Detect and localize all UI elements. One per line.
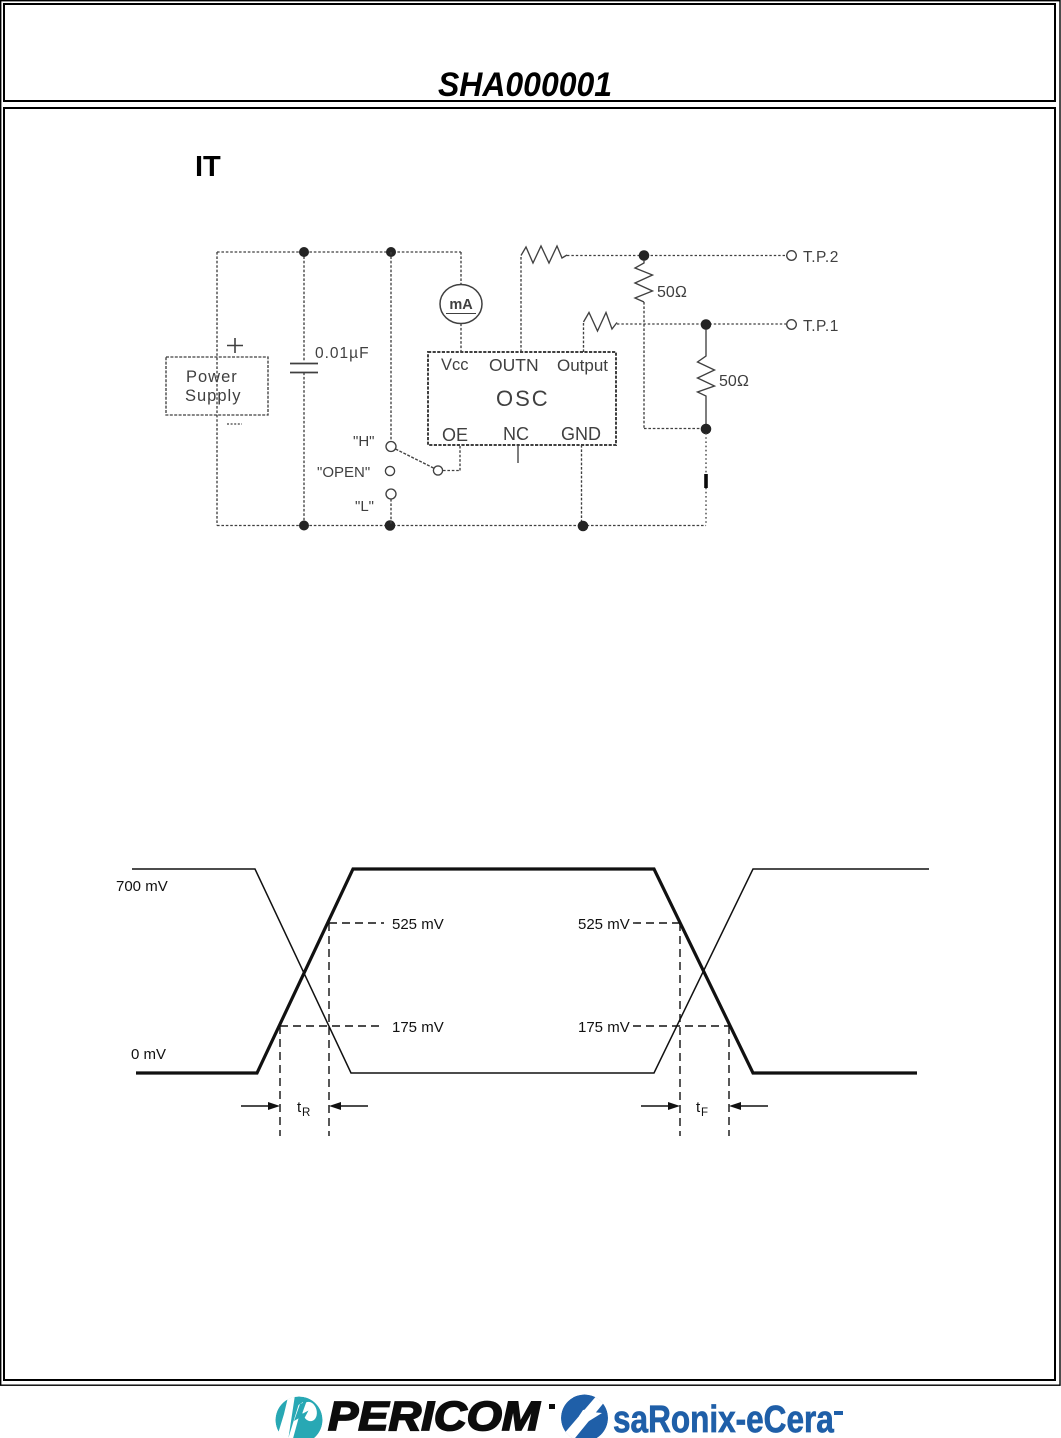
saronix icon <box>561 1394 608 1438</box>
svg-text:OSC: OSC <box>496 386 550 411</box>
pin GND wire <box>581 445 583 526</box>
dashed 175 left <box>280 1025 384 1027</box>
svg-text:mA: mA <box>449 297 473 313</box>
svg-text:IT: IT <box>195 151 221 183</box>
junction bottom-cap <box>299 521 309 531</box>
power supply PS1 <box>166 357 268 415</box>
svg-text:"L": "L" <box>355 498 374 515</box>
dashed vertical tf-end <box>728 1026 730 1136</box>
label 175mV left <box>392 1019 444 1036</box>
minus terminal label <box>227 423 242 425</box>
svg-text:525 mV: 525 mV <box>578 916 630 933</box>
wire tp2 <box>567 255 786 257</box>
arrow tf left <box>641 1102 680 1110</box>
svg-text:Vcc: Vcc <box>441 356 469 374</box>
mark scan-dash <box>704 474 708 488</box>
svg-text:175 mV: 175 mV <box>578 1019 630 1036</box>
pericom icon <box>272 1395 323 1438</box>
testpoint T.P.2 <box>787 249 839 266</box>
svg-text:T.P.2: T.P.2 <box>803 249 839 266</box>
svg-text:OE: OE <box>442 425 468 445</box>
testpoint T.P.1 <box>787 318 839 335</box>
waveform thin trace <box>132 869 929 1073</box>
arrow tf right <box>729 1102 768 1110</box>
TITLE <box>438 65 612 103</box>
svg-text:0 mV: 0 mV <box>131 1046 166 1063</box>
HEADING-IT <box>195 151 221 183</box>
label tR <box>297 1099 310 1119</box>
svg-text:50Ω: 50Ω <box>657 284 687 301</box>
wire left rail <box>216 252 218 526</box>
svg-text:saRonix-eCera: saRonix-eCera <box>613 1398 834 1438</box>
wire tp1 <box>617 323 786 325</box>
wire r2-to-node <box>644 428 701 430</box>
label OPEN <box>317 464 370 481</box>
svg-text:50Ω: 50Ω <box>719 373 749 390</box>
wire bottom rail <box>217 525 706 527</box>
dashed 525 right <box>633 922 680 924</box>
svg-text:Output: Output <box>557 356 608 375</box>
label 0mV <box>131 1046 166 1063</box>
arrow tr left <box>241 1102 280 1110</box>
dashed 525 left <box>329 922 384 924</box>
junction gnd-bottom <box>578 521 589 532</box>
svg-text:GND: GND <box>561 424 601 444</box>
junction r4-bottom <box>701 424 712 435</box>
dashed 175 right <box>633 1025 729 1027</box>
wire r2-down <box>643 302 645 429</box>
label 175mV right <box>578 1019 630 1036</box>
label H <box>353 433 374 450</box>
WAVEFORM <box>116 869 929 1136</box>
label L <box>355 498 374 515</box>
saronix wordmark <box>613 1398 843 1438</box>
oscillator U1 OSC <box>428 352 616 445</box>
switch S1 <box>385 252 460 525</box>
dashed vertical tf-start <box>679 923 681 1136</box>
dashed vertical tr-end <box>328 923 330 1136</box>
svg-text:R: R <box>302 1107 310 1119</box>
resistor R1 outn-series <box>521 246 567 352</box>
label 525mV right <box>578 916 630 933</box>
svg-text:700 mV: 700 mV <box>116 878 168 895</box>
svg-text:NC: NC <box>503 424 529 444</box>
arrow tr right <box>329 1102 368 1110</box>
svg-text:F: F <box>701 1107 708 1119</box>
ammeter M1 mA <box>440 252 482 352</box>
svg-text:Power: Power <box>186 368 238 386</box>
HEADER-BOX <box>4 4 1055 101</box>
junction tp1 <box>701 319 712 330</box>
svg-text:Supply: Supply <box>185 387 241 405</box>
plus terminal label <box>227 338 243 353</box>
resistor R4 50ohm <box>698 330 750 425</box>
svg-text:525 mV: 525 mV <box>392 916 444 933</box>
svg-text:175 mV: 175 mV <box>392 1019 444 1036</box>
capacitor C1 0.01uF <box>290 252 370 525</box>
svg-text:PERICOM: PERICOM <box>328 1394 541 1438</box>
label 700mV <box>116 878 168 895</box>
label tF <box>696 1099 708 1119</box>
svg-text:OUTN: OUTN <box>489 355 539 375</box>
wire node-to-gnd <box>705 433 707 526</box>
LOGOS <box>272 1394 843 1438</box>
junction top-cap <box>299 247 309 257</box>
junction bottom-switch <box>385 520 396 531</box>
wire top rail <box>217 251 461 253</box>
dashed vertical tr-start <box>279 1026 281 1136</box>
svg-text:T.P.1: T.P.1 <box>803 318 839 335</box>
svg-text:"H": "H" <box>353 433 374 450</box>
junction top-switch <box>386 247 396 257</box>
pin NC stub <box>517 445 519 463</box>
svg-text:"OPEN": "OPEN" <box>317 464 370 481</box>
label 525mV left <box>392 916 444 933</box>
junction tp2 <box>639 250 650 261</box>
pericom wordmark <box>328 1394 555 1438</box>
svg-text:0.01µF: 0.01µF <box>315 345 370 362</box>
svg-text:SHA000001: SHA000001 <box>438 65 612 103</box>
waveform thick trace <box>136 869 917 1073</box>
resistor R3 output-series <box>584 313 618 353</box>
SCHEMATIC <box>166 246 839 531</box>
resistor R2 50ohm <box>635 260 687 302</box>
